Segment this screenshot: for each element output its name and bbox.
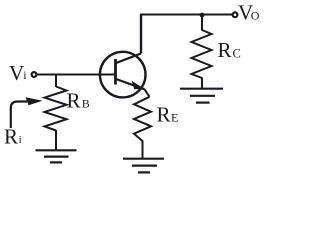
- label RB: [67, 89, 90, 113]
- transistor Q1: emitter stroke with arrowhead: [116, 79, 145, 89]
- label RE: [157, 103, 179, 127]
- svg-text:B: B: [82, 97, 90, 111]
- svg-text:E: E: [171, 111, 178, 125]
- svg-text:R: R: [4, 125, 18, 149]
- ground (RB): [36, 150, 77, 162]
- resistor RB: [45, 87, 67, 131]
- label Vo: [238, 1, 260, 25]
- wire: input terminal to transistor base: [37, 74, 115, 76]
- label Ri: [4, 125, 22, 149]
- junction node: collector / RC: [200, 13, 205, 18]
- transistor Q1: collector stroke: [116, 54, 141, 64]
- transistor Q1: circle: [100, 52, 146, 98]
- input terminal Vi: [32, 72, 37, 77]
- svg-text:V: V: [9, 61, 24, 85]
- ground (RE): [123, 159, 164, 173]
- arrow Ri (input resistance pointer): [11, 97, 43, 128]
- wire: top rail to output terminal: [140, 14, 233, 16]
- resistor RC: [192, 30, 212, 78]
- label RC: [218, 38, 241, 62]
- output terminal Vo: [233, 12, 238, 17]
- transistor Q1: base bar: [114, 59, 117, 85]
- svg-text:R: R: [218, 38, 232, 62]
- svg-text:R: R: [67, 89, 81, 113]
- wire: collector to top rail: [140, 15, 142, 54]
- svg-text:i: i: [19, 134, 22, 146]
- svg-text:O: O: [251, 9, 260, 23]
- wire: RC top lead: [201, 15, 203, 31]
- wire: RB bottom lead: [55, 130, 57, 150]
- wire: RC bottom lead: [201, 78, 203, 89]
- wire: RE bottom lead: [142, 141, 144, 159]
- label Vi: [9, 61, 27, 85]
- wire: emitter to RE: [145, 89, 150, 97]
- resistor RE: [134, 97, 151, 141]
- svg-text:C: C: [233, 46, 241, 60]
- ground (RC): [180, 89, 223, 103]
- svg-text:R: R: [157, 103, 171, 127]
- wire: RB top lead: [55, 75, 57, 88]
